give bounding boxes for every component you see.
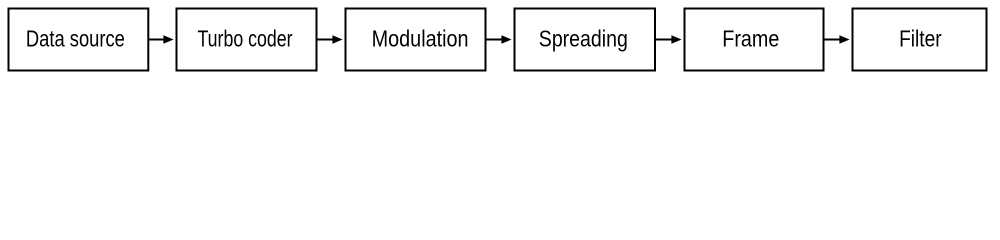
svg-text:Frame: Frame <box>722 26 779 52</box>
svg-text:Filter: Filter <box>899 26 942 52</box>
svg-text:Spreading: Spreading <box>539 26 628 52</box>
svg-text:Turbo coder: Turbo coder <box>198 26 293 52</box>
svg-text:Data source: Data source <box>26 26 125 52</box>
svg-text:Modulation: Modulation <box>372 26 469 52</box>
